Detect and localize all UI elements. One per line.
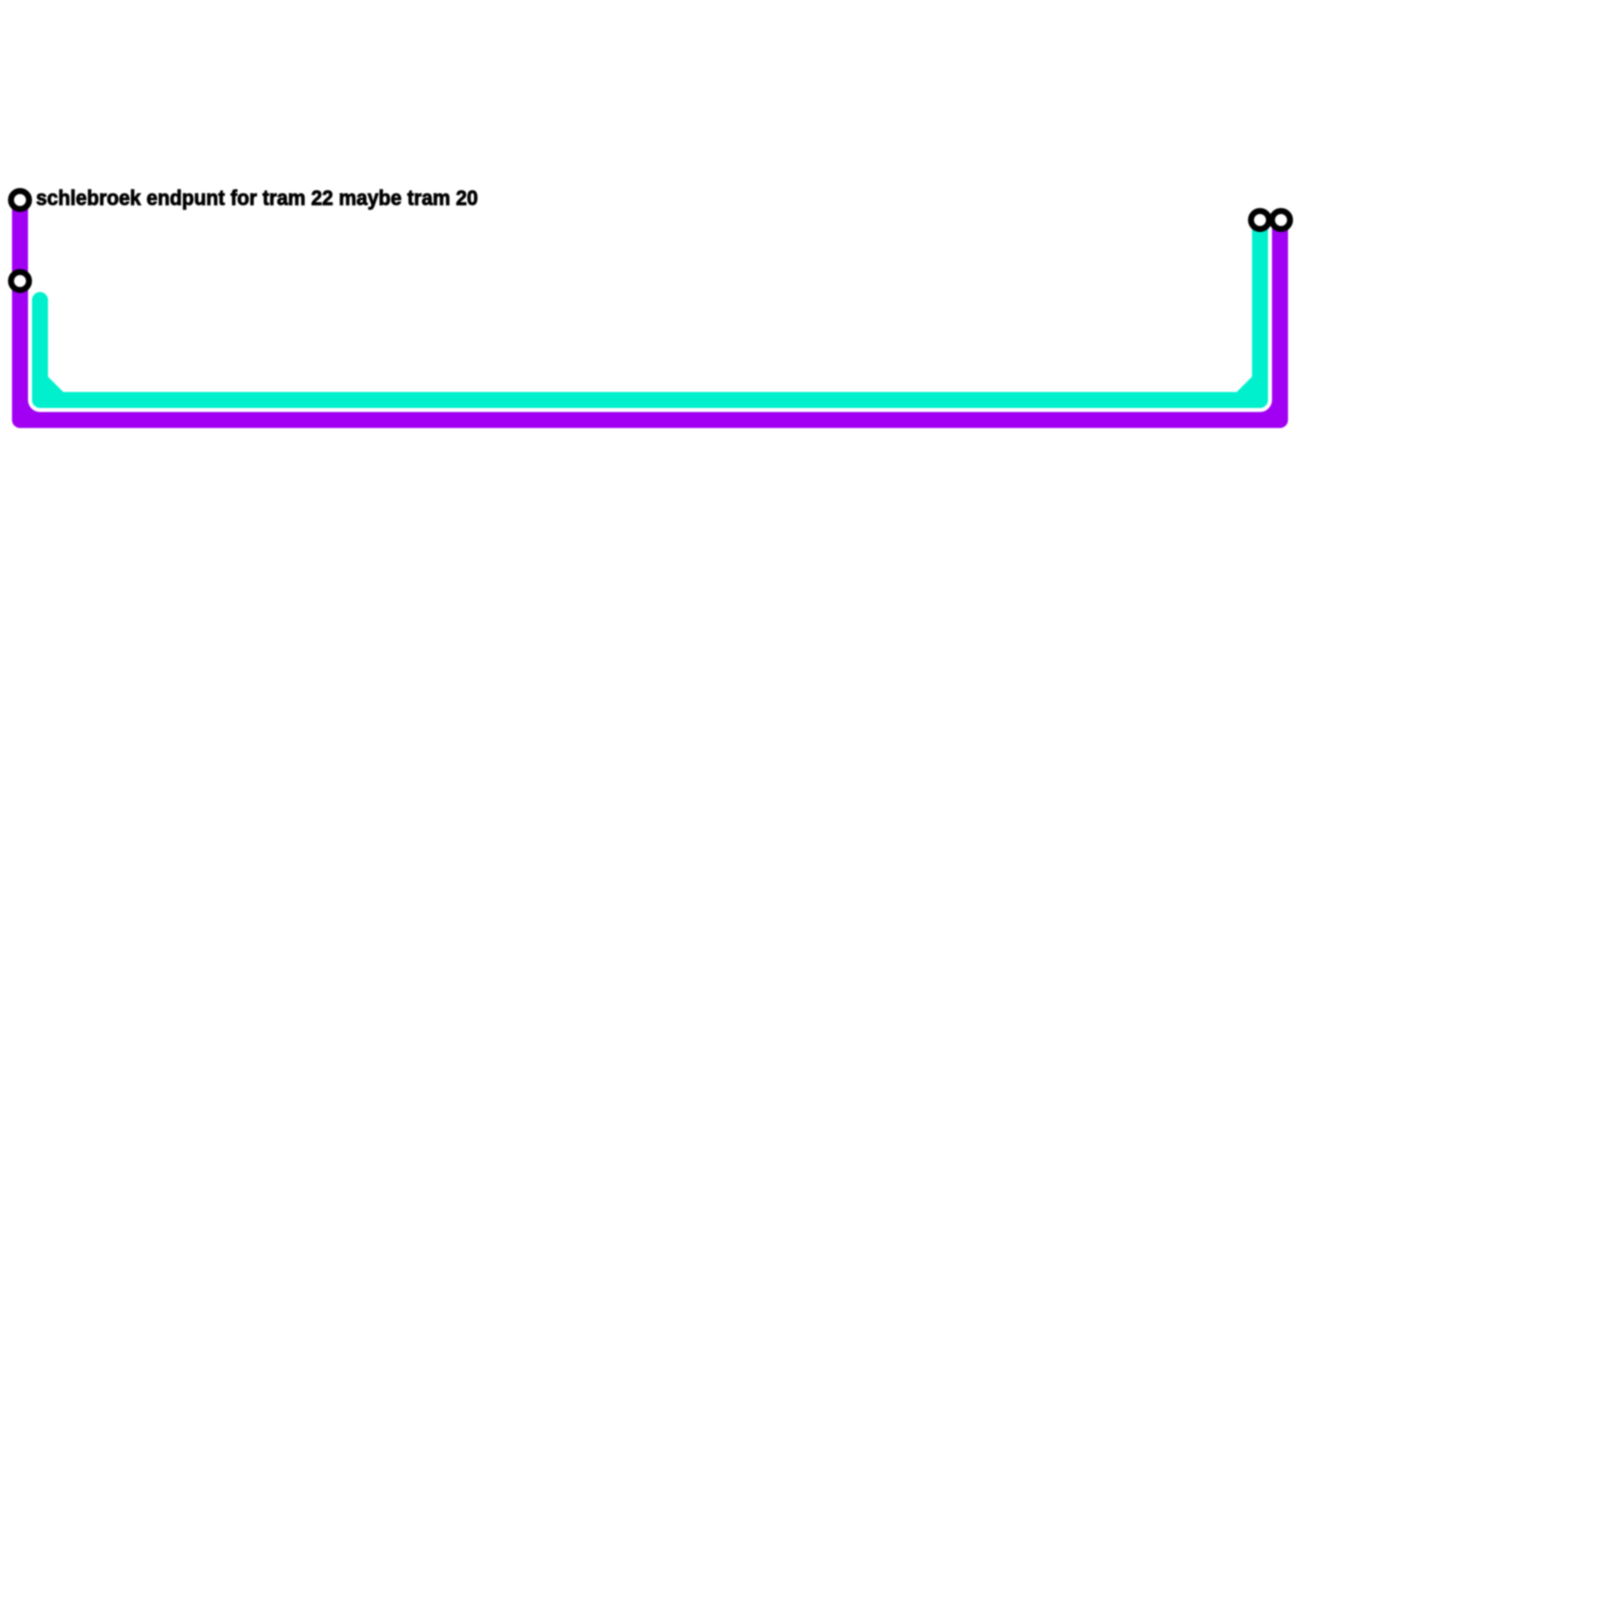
svg-text:schlebroek endpunt for tram 22: schlebroek endpunt for tram 22 maybe tra… [36,187,478,210]
